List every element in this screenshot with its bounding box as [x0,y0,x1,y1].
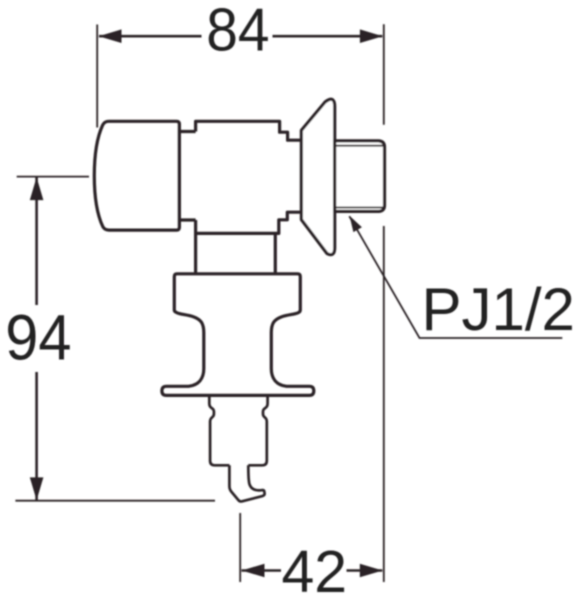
flange escutcheon [301,99,334,254]
svg-text:42: 42 [281,539,347,600]
dim 42 line right segment [347,569,383,572]
dim 94 top extension line [17,176,89,178]
svg-text:PJ1/2: PJ1/2 [421,276,574,343]
dim 42 left extension line [239,513,241,582]
arrowhead leader [350,216,362,232]
arrowhead 84 right [360,29,383,43]
arrowhead 94 up [30,177,44,200]
nipple thread inner bottom line [335,206,384,208]
nipple thread inner top line [335,145,384,147]
leader line PJ1/2 [349,216,562,338]
neck right edge [274,233,277,273]
dim 84 left extension line [96,25,98,128]
handle shaft bottom line [179,218,195,221]
dim 84 line left segment [99,35,202,38]
outlet spout [229,465,264,501]
dim right extension line lower [383,226,385,582]
handle knob [94,121,179,230]
arrowhead 94 down [30,477,44,500]
dim 94 bottom extension line [15,500,215,502]
dim 84 line right segment [273,35,383,38]
neck left edge [194,233,197,273]
body block top outline [196,121,302,140]
tail right side with groove [248,395,267,465]
dim 94 line upper segment [35,178,38,306]
body block bottom outline [196,212,302,233]
tail left side with groove [209,395,229,465]
dim right extension line upper [383,24,385,124]
svg-text:84: 84 [206,0,269,64]
dim 42 line left segment [242,569,282,572]
nipple thread body [335,141,385,212]
arrowhead 84 left [99,29,122,43]
svg-text:94: 94 [5,303,71,374]
bell and skirt body [162,274,314,396]
dim 94 line lower segment [35,372,38,500]
handle shaft top line [179,130,195,133]
arrowhead 42 left [242,564,265,578]
arrowhead 42 right [360,564,383,578]
